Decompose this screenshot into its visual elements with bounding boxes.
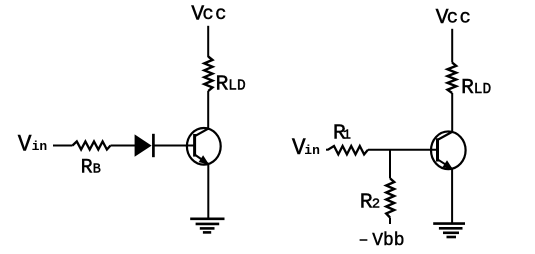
transistor Q2 emitter diagonal xyxy=(438,159,453,168)
resistor R1 xyxy=(328,146,368,154)
wire emitter to ground (right) xyxy=(451,169,453,224)
wire Vcc to RLD (right) xyxy=(451,29,453,63)
svg-text:−: − xyxy=(359,233,368,250)
diode D1 triangle xyxy=(135,134,152,156)
svg-text:LD: LD xyxy=(228,78,245,94)
transistor Q2 collector diagonal xyxy=(438,132,453,140)
resistor RLD (right) xyxy=(448,63,457,94)
wire R2 to -Vbb xyxy=(389,218,391,225)
svg-text:Vbb: Vbb xyxy=(372,231,404,251)
svg-text:cc: cc xyxy=(447,7,472,29)
wire RLD to collector (right) xyxy=(451,93,453,132)
node junction R1/R2 xyxy=(389,150,391,179)
diode D1 cathode bar xyxy=(152,134,155,157)
transistor Q1 emitter diagonal xyxy=(195,155,209,165)
transistor Q2 base bar xyxy=(436,138,439,161)
wire Vin to RB xyxy=(53,145,73,147)
svg-text:R: R xyxy=(81,157,93,180)
svg-text:in: in xyxy=(304,143,320,158)
wire diode to base xyxy=(155,145,195,147)
svg-text:V: V xyxy=(18,131,32,157)
transistor Q1 emitter arrow xyxy=(200,156,208,163)
transistor Q1 collector diagonal xyxy=(195,129,209,137)
svg-text:R: R xyxy=(216,72,229,96)
svg-text:B: B xyxy=(93,163,101,178)
svg-text:in: in xyxy=(32,139,48,154)
transistor Q1 circle xyxy=(187,128,221,165)
transistor Q2 circle xyxy=(431,131,466,169)
ground (left) xyxy=(190,219,224,233)
wire R1 to base xyxy=(368,149,438,151)
transistor Q2 emitter arrow xyxy=(444,161,452,168)
transistor Q1 base bar xyxy=(193,134,196,157)
svg-text:2: 2 xyxy=(372,197,380,213)
wire Vin to R1 xyxy=(326,149,329,151)
resistor RB xyxy=(73,141,111,149)
svg-text:1: 1 xyxy=(343,129,351,144)
wire RLD to collector (left) xyxy=(207,91,209,129)
wire RB to diode xyxy=(111,145,136,147)
ground (right) xyxy=(433,224,465,237)
resistor RLD (left) xyxy=(204,57,212,92)
wire Vcc to RLD (left) xyxy=(207,26,209,57)
svg-text:R: R xyxy=(461,76,474,100)
wire emitter to ground (left) xyxy=(207,164,209,218)
svg-text:cc: cc xyxy=(202,3,227,25)
resistor R2 xyxy=(386,179,394,218)
svg-text:LD: LD xyxy=(474,82,491,98)
